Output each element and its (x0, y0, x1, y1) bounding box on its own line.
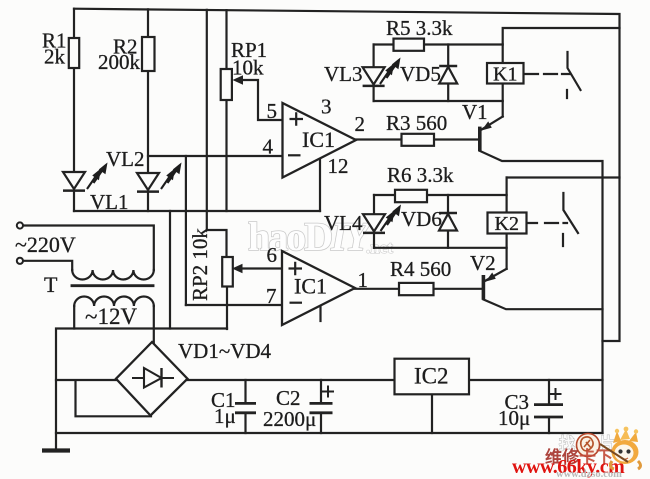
svg-text:IC1: IC1 (302, 127, 335, 152)
svg-text:10k: 10k (232, 56, 264, 80)
svg-text:7: 7 (266, 284, 277, 308)
svg-text:VL3: VL3 (324, 62, 363, 86)
svg-text:VL1: VL1 (90, 190, 129, 214)
svg-text:VL4: VL4 (324, 211, 363, 235)
svg-text:1: 1 (358, 268, 369, 292)
svg-text:5: 5 (267, 99, 278, 123)
svg-text:R6 3.3k: R6 3.3k (387, 163, 454, 187)
svg-text:10μ: 10μ (498, 406, 530, 430)
svg-text:www.dzso.com: www.dzso.com (556, 469, 622, 479)
svg-text:VL2: VL2 (106, 147, 145, 171)
svg-text:K1: K1 (493, 64, 517, 86)
svg-text:4: 4 (263, 135, 274, 159)
svg-text:3: 3 (321, 95, 332, 119)
svg-text:K2: K2 (495, 213, 519, 235)
svg-text:IC2: IC2 (414, 364, 449, 389)
svg-text:VD1~VD4: VD1~VD4 (178, 339, 272, 363)
svg-text:~220V: ~220V (15, 232, 76, 257)
svg-text:6: 6 (267, 243, 278, 267)
svg-text:2k: 2k (44, 45, 66, 69)
svg-text:T: T (44, 272, 58, 297)
svg-text:RP2 10k: RP2 10k (188, 228, 212, 301)
svg-text:1μ: 1μ (214, 404, 236, 428)
svg-text:200k: 200k (98, 50, 141, 74)
svg-text:R3 560: R3 560 (386, 111, 447, 135)
svg-text:2: 2 (355, 112, 366, 136)
svg-text:~12V: ~12V (85, 304, 137, 329)
svg-text:12: 12 (328, 154, 349, 178)
svg-text:2200μ: 2200μ (263, 407, 316, 431)
svg-text:VD5: VD5 (400, 62, 441, 86)
svg-text:VD6: VD6 (401, 207, 442, 231)
svg-text:V1: V1 (462, 100, 488, 124)
svg-text:V2: V2 (470, 251, 496, 275)
svg-text:IC1: IC1 (294, 274, 327, 299)
svg-text:R4 560: R4 560 (390, 257, 451, 281)
svg-text:R5 3.3k: R5 3.3k (386, 16, 453, 40)
